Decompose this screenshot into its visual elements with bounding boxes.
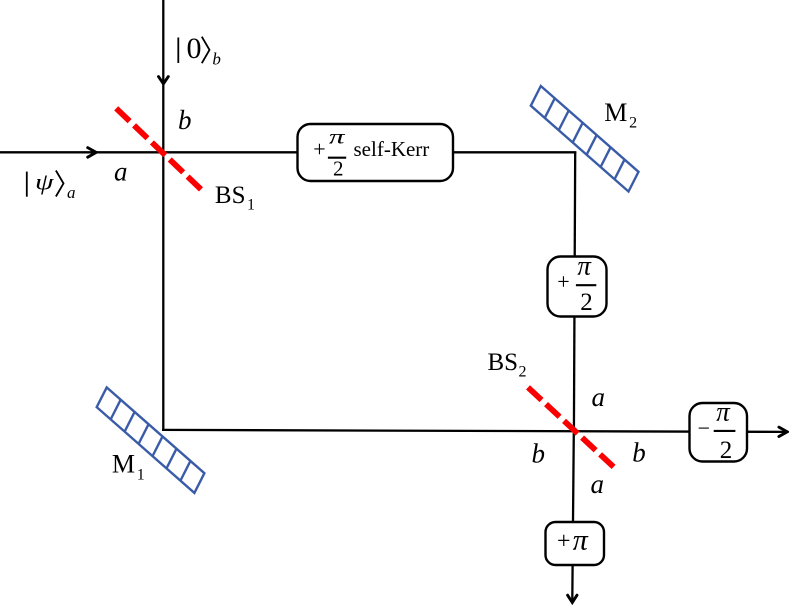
fraction bar: [714, 430, 736, 432]
svg-text:+: +: [313, 136, 325, 161]
label: vacuum ket |0>_b: [178, 32, 221, 69]
label: input ket |psi>_a: [27, 170, 76, 202]
svg-text:1: 1: [247, 197, 255, 214]
svg-text:0: 0: [187, 32, 202, 65]
svg-text:b: b: [212, 50, 221, 69]
svg-text:π: π: [716, 397, 731, 427]
wire: bottom horizontal rail (M1 corner through BS2 to output): [162, 430, 786, 432]
arrowhead: input arrow on left rail: [88, 148, 97, 158]
beam splitter BS2 (red dashed): [528, 387, 614, 467]
arrowhead: output arrow right: [779, 427, 787, 436]
wire: input horizontal top rail: [0, 151, 576, 153]
svg-text:b: b: [632, 438, 646, 468]
wire: top vertical (mode b input through BS1 down to M1 corner): [162, 0, 164, 431]
svg-text:self-Kerr: self-Kerr: [354, 137, 430, 161]
svg-text:b: b: [532, 438, 546, 468]
svg-text:a: a: [114, 156, 128, 186]
svg-text:2: 2: [333, 157, 344, 181]
svg-text:+: +: [557, 269, 569, 294]
box: -pi/2 phase (right output): [690, 397, 748, 464]
svg-text:π: π: [573, 523, 589, 556]
svg-text:π: π: [577, 250, 592, 280]
svg-text:2: 2: [629, 115, 637, 132]
svg-text:b: b: [178, 105, 192, 135]
svg-text:π: π: [329, 127, 346, 149]
box: +pi phase (bottom output): [546, 522, 605, 565]
svg-text:2: 2: [580, 289, 593, 316]
svg-text:M: M: [604, 98, 627, 127]
svg-text:BS: BS: [215, 182, 246, 209]
svg-text:a: a: [67, 183, 76, 202]
mirror M1 (blue hatched parallelogram): [97, 387, 205, 493]
fraction bar: [576, 284, 596, 286]
svg-text:2: 2: [519, 363, 527, 380]
svg-text:BS: BS: [488, 349, 519, 376]
beam splitter BS1 (red dashed): [116, 108, 201, 189]
arrowhead: output arrow bottom: [568, 595, 577, 602]
svg-text:−: −: [698, 416, 710, 441]
wire: right vertical (M2 corner down to BS2): [574, 152, 575, 431]
box: +pi/2 self-Kerr: [298, 124, 454, 181]
svg-text:1: 1: [137, 467, 145, 484]
svg-text:M: M: [112, 450, 135, 479]
svg-text:a: a: [592, 382, 606, 412]
wire: bottom vertical output below BS2: [572, 431, 574, 600]
mirror M2 (blue hatched parallelogram): [531, 86, 639, 192]
box: +pi/2 phase (right arm): [548, 250, 607, 316]
svg-text:a: a: [591, 469, 605, 499]
svg-text:2: 2: [720, 437, 733, 464]
svg-text:ψ: ψ: [35, 170, 54, 195]
svg-text:+: +: [557, 528, 571, 554]
fraction bar: [328, 157, 346, 159]
arrowhead: downward arrow on |0> input line: [159, 77, 169, 84]
